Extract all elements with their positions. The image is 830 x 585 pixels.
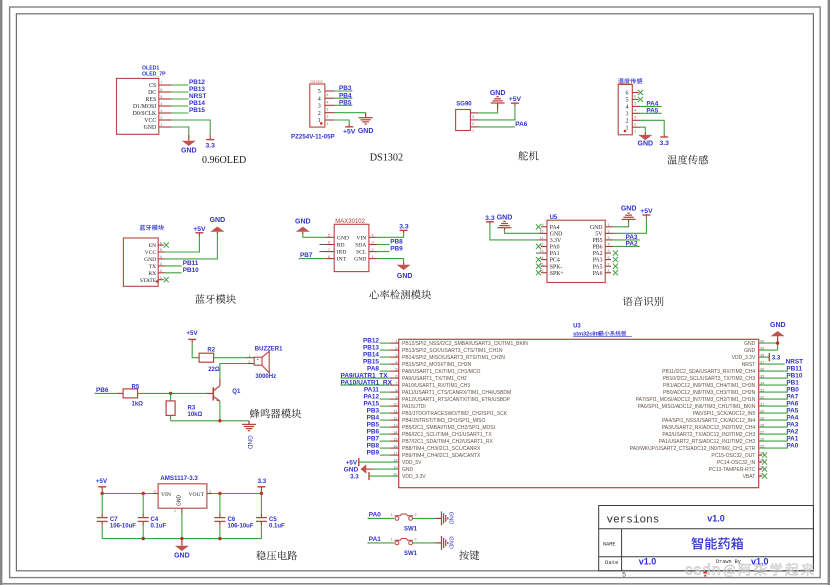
no-connect right pin 7 — [605, 265, 611, 267]
svg-text:2: 2 — [415, 538, 417, 542]
svg-text:GND: GND — [210, 217, 226, 224]
wire — [214, 357, 246, 359]
svg-text:C5: C5 — [269, 517, 277, 523]
ground GND (OLED) — [188, 135, 190, 141]
wire — [759, 342, 778, 344]
svg-text:DS1302: DS1302 — [311, 80, 323, 84]
no-connect PC4 — [541, 259, 547, 261]
caption 稳压电路 — [256, 551, 297, 561]
U3 pin names — [402, 341, 756, 480]
svg-text:PB6: PB6 — [96, 387, 109, 394]
svg-text:2: 2 — [326, 115, 328, 119]
svg-text:2: 2 — [472, 122, 474, 126]
svg-text:PB5: PB5 — [339, 99, 352, 106]
svg-text:PA6: PA6 — [515, 121, 527, 128]
DS1302 outside pin numbers — [326, 93, 328, 126]
svg-text:D1/MOSI: D1/MOSI — [133, 104, 156, 110]
svg-text:GND: GND — [181, 148, 197, 155]
svg-text:PA15/JTDI: PA15/JTDI — [402, 404, 426, 410]
wire — [380, 398, 390, 400]
svg-text:PB14/SPI2_MISO/USART3_RTS/TIM1: PB14/SPI2_MISO/USART3_RTS/TIM1_CH2N — [402, 355, 505, 361]
U3 pin numbers — [393, 340, 764, 477]
svg-text:PB8/TIM4_CH3/I2C1_SCL/CANRX: PB8/TIM4_CH3/I2C1_SCL/CANRX — [402, 446, 481, 452]
wire — [369, 258, 377, 260]
wire — [759, 363, 785, 365]
wire — [759, 384, 788, 386]
wire — [605, 245, 613, 247]
svg-text:GND: GND — [448, 536, 454, 548]
no-connect right pin 6 — [605, 259, 611, 261]
svg-text:GND: GND — [638, 141, 654, 148]
svg-text:SDA: SDA — [355, 243, 366, 249]
junction — [218, 492, 221, 495]
power +5V (bluetooth) — [198, 233, 200, 236]
svg-text:PB3: PB3 — [339, 85, 352, 92]
svg-text:3: 3 — [154, 489, 156, 493]
wire — [380, 447, 390, 449]
stub RD (unconnected) — [326, 244, 334, 246]
power 3.3 (MAX) — [403, 230, 405, 233]
no-connect — [759, 454, 762, 456]
svg-text:PB15: PB15 — [189, 107, 205, 114]
svg-text:1: 1 — [391, 513, 393, 517]
caption 蜂鸣器模块 — [250, 409, 301, 419]
wire — [759, 419, 788, 421]
svg-text:5: 5 — [318, 89, 321, 95]
wire — [539, 232, 547, 234]
svg-text:PA2: PA2 — [593, 251, 603, 257]
svg-text:PB13: PB13 — [363, 344, 379, 351]
svg-text:*: * — [257, 357, 259, 362]
wire — [380, 440, 390, 442]
wire — [632, 112, 640, 114]
svg-text:PB10/I2C2_SCL/USART3_TX/TIM2_C: PB10/I2C2_SCL/USART3_TX/TIM2_CH3 — [663, 376, 756, 382]
svg-text:+5V: +5V — [193, 226, 206, 233]
svg-text:GND: GND — [590, 225, 603, 231]
junction — [218, 537, 221, 540]
wire — [380, 363, 390, 365]
wire — [759, 370, 788, 372]
svg-text:PB4/JNTRST/TIM3_CH1/SPI1_MISO: PB4/JNTRST/TIM3_CH1/SPI1_MISO — [402, 418, 485, 424]
svg-text:5V: 5V — [595, 231, 603, 237]
svg-text:C4: C4 — [151, 517, 159, 523]
ground label GND rotated — [246, 435, 253, 449]
svg-text:+5V: +5V — [640, 208, 653, 215]
svg-text:4: 4 — [626, 105, 629, 111]
wire — [326, 236, 334, 238]
power 3.3 (temp) — [663, 134, 665, 137]
svg-text:10kΩ: 10kΩ — [188, 412, 203, 418]
svg-text:GND: GND — [402, 467, 414, 473]
svg-text:3.3: 3.3 — [485, 215, 495, 222]
junction — [776, 341, 779, 344]
svg-text:PA1: PA1 — [369, 536, 381, 543]
wire — [341, 377, 390, 379]
svg-text:PB5/I2C1_SMBAI/TIM3_CH2/SPI1_M: PB5/I2C1_SMBAI/TIM3_CH2/SPI1_MOSI — [402, 425, 495, 431]
caption 语音识别 — [623, 296, 664, 306]
svg-text:VDD_3.3V: VDD_3.3V — [732, 355, 756, 361]
no-connect — [759, 475, 762, 477]
svg-text:5: 5 — [626, 98, 629, 104]
title block table — [599, 506, 814, 571]
designator 蓝牙模块 (small) — [140, 225, 164, 231]
caption 按键 — [459, 550, 479, 560]
U5 pin names — [550, 225, 604, 277]
svg-text:PA0/WKUP/USART2_CTS/ADC12_IN0/: PA0/WKUP/USART2_CTS/ADC12_IN0/TIM2_CH1_E… — [630, 446, 756, 452]
wire — [159, 105, 172, 107]
svg-text:3.3: 3.3 — [772, 354, 781, 361]
module bluetooth box — [123, 238, 158, 286]
svg-text:SG90: SG90 — [456, 101, 472, 107]
ground GND (servo) — [497, 103, 499, 109]
U5 pin numbers — [539, 223, 609, 273]
svg-text:PA3: PA3 — [786, 421, 798, 428]
wire — [158, 251, 164, 253]
wire — [159, 98, 172, 100]
svg-text:PA5: PA5 — [593, 264, 603, 270]
wire — [759, 398, 788, 400]
svg-text:PA8/USART1_CK/TIM1_CH1/MCO: PA8/USART1_CK/TIM1_CH1/MCO — [402, 369, 481, 375]
svg-text:3.3: 3.3 — [350, 474, 359, 481]
svg-text:PB15/SPI2_MOSI/TIM1_CH3N: PB15/SPI2_MOSI/TIM1_CH3N — [402, 362, 472, 368]
no-connect — [759, 461, 762, 463]
svg-text:PA10/USART1_RX/TIM1_CH3: PA10/USART1_RX/TIM1_CH3 — [402, 383, 470, 389]
svg-text:GND: GND — [497, 214, 513, 221]
svg-text:PB9: PB9 — [367, 449, 380, 456]
wire — [759, 426, 788, 428]
svg-text:AMS1117-3.3: AMS1117-3.3 — [160, 475, 198, 482]
svg-text:PA15: PA15 — [363, 400, 379, 407]
svg-text:PA12: PA12 — [363, 393, 379, 400]
svg-text:PB0/ADC12_IN8/TIM3_CH3/TIM1_CH: PB0/ADC12_IN8/TIM3_CH3/TIM1_CH2N — [663, 390, 756, 396]
title name 智能药箱 — [692, 537, 744, 549]
wire — [170, 416, 172, 421]
power 3.3 (U5) — [489, 222, 491, 225]
svg-text:Date: Date — [605, 559, 618, 566]
svg-text:GND: GND — [246, 435, 253, 449]
svg-text:SW1: SW1 — [404, 527, 418, 533]
svg-text:VBAT: VBAT — [743, 474, 756, 480]
svg-text:PA11/USART1_CTS/CANRX/TIM1_CH4: PA11/USART1_CTS/CANRX/TIM1_CH4/USBDM — [402, 390, 511, 396]
svg-text:2: 2 — [318, 111, 321, 117]
ground GND (DS1302) — [365, 113, 367, 118]
IC U5 voice module box — [547, 220, 605, 282]
svg-text:PB13/SPI2_SCK/USART3_CTS/TIM1_: PB13/SPI2_SCK/USART3_CTS/TIM1_CH1N — [402, 348, 503, 354]
ground GND (temp) — [644, 132, 646, 135]
ground GND (MAX left) — [302, 232, 304, 234]
svg-text:PA1: PA1 — [550, 251, 560, 257]
svg-text:PA2: PA2 — [786, 428, 798, 435]
wire — [605, 239, 613, 241]
svg-text:PB8: PB8 — [390, 239, 403, 246]
stub PA1 (unconnected) — [541, 252, 547, 254]
svg-text:SPK-: SPK- — [550, 264, 563, 270]
wire top rail right — [207, 493, 213, 495]
svg-text:PA7: PA7 — [786, 393, 798, 400]
svg-text:VIN: VIN — [356, 235, 366, 241]
wire — [632, 105, 640, 107]
wire — [632, 119, 640, 121]
wire — [325, 112, 334, 114]
svg-text:GND: GND — [550, 231, 563, 237]
svg-text:1: 1 — [472, 129, 474, 133]
svg-text:GND: GND — [144, 125, 157, 131]
ground GND (U5 left) — [504, 228, 506, 231]
svg-text:CS: CS — [149, 83, 156, 89]
svg-text:GND: GND — [337, 235, 349, 241]
no-connect PA4 — [541, 226, 547, 228]
svg-text:3: 3 — [634, 116, 636, 120]
svg-text:3: 3 — [626, 112, 629, 118]
OLED1 pin names — [133, 83, 157, 131]
svg-text:GND: GND — [397, 273, 413, 280]
svg-text:v1.0: v1.0 — [707, 514, 725, 524]
svg-text:1: 1 — [326, 122, 328, 126]
wire — [605, 232, 613, 234]
svg-text:PA2: PA2 — [626, 240, 638, 247]
svg-text:VCC: VCC — [145, 250, 157, 256]
svg-text:PA4/SPI1_NSS/USART2_CK/ADC12_I: PA4/SPI1_NSS/USART2_CK/ADC12_IN4 — [662, 418, 755, 424]
svg-text:PB7: PB7 — [367, 435, 380, 442]
svg-text:GND: GND — [295, 218, 311, 225]
wire regulator GND pin — [181, 508, 183, 513]
svg-text:PC13-TAMPER-RTC: PC13-TAMPER-RTC — [709, 467, 756, 473]
svg-text:PB12/SPI2_NSS/I2C2_SMBAI/USART: PB12/SPI2_NSS/I2C2_SMBAI/USART3_CK/TIM1_… — [402, 341, 528, 347]
junction — [142, 492, 145, 495]
wire — [341, 384, 390, 386]
svg-text:GND: GND — [621, 205, 637, 212]
svg-text:PC4: PC4 — [550, 258, 560, 264]
svg-text:6: 6 — [626, 91, 629, 97]
svg-text:IRD: IRD — [337, 250, 347, 256]
svg-text:3.3: 3.3 — [659, 140, 669, 147]
svg-text:1: 1 — [391, 538, 393, 542]
resistor R2 — [199, 353, 214, 362]
wire — [369, 251, 377, 253]
svg-text:VCC: VCC — [144, 118, 156, 124]
SG90 pin numbers — [472, 115, 474, 133]
junction — [142, 537, 145, 540]
svg-text:PB10: PB10 — [183, 267, 199, 274]
svg-text:PA6: PA6 — [593, 271, 603, 277]
connector DS1302 header — [310, 84, 325, 127]
svg-text:DS1302: DS1302 — [370, 152, 403, 163]
wire — [325, 97, 334, 99]
capacitor C6 — [219, 494, 221, 514]
svg-text:PA6: PA6 — [786, 400, 798, 407]
svg-text:6: 6 — [634, 95, 636, 99]
svg-text:PB15: PB15 — [363, 358, 379, 365]
resistor R5 — [123, 389, 138, 398]
svg-text:GND: GND — [770, 322, 786, 329]
svg-text:PB9: PB9 — [390, 246, 403, 253]
svg-text:PB0: PB0 — [786, 386, 799, 393]
no-connect EN — [158, 244, 164, 246]
wire — [159, 112, 172, 114]
caption 温度传感 — [667, 155, 708, 165]
resistor R3 — [166, 401, 175, 416]
svg-text:5: 5 — [326, 93, 328, 97]
svg-text:DC: DC — [148, 90, 156, 96]
ground GND (U3 top right) — [777, 336, 779, 343]
wire — [325, 119, 334, 121]
no-connect SPK+ — [541, 272, 547, 274]
svg-text:3.3V: 3.3V — [550, 238, 562, 244]
svg-text:2: 2 — [634, 123, 636, 127]
svg-text:2: 2 — [209, 489, 211, 493]
temp sensor inside pin numbers — [626, 91, 629, 132]
DS1302 inside pin numbers — [318, 89, 321, 124]
ground GND (U5 right) — [628, 219, 630, 221]
svg-text:GND: GND — [744, 348, 756, 354]
svg-text:+5V: +5V — [186, 330, 198, 337]
svg-text:PB8: PB8 — [367, 442, 380, 449]
svg-text:PB6: PB6 — [593, 245, 603, 251]
junction — [218, 419, 221, 422]
svg-text:3: 3 — [326, 108, 328, 112]
MCU U3 box — [399, 339, 759, 487]
svg-text:VIN: VIN — [161, 492, 171, 498]
wire — [539, 239, 547, 241]
svg-text:PB11/I2C2_SDA/USART3_RX/TIM2_C: PB11/I2C2_SDA/USART3_RX/TIM2_CH4 — [662, 369, 755, 375]
ground GND (MAX right) — [403, 263, 405, 265]
svg-text:+5V: +5V — [96, 478, 108, 485]
svg-text:PA3/USART2_RX/ADC12_IN3/TIM2_C: PA3/USART2_RX/ADC12_IN3/TIM2_CH4 — [662, 425, 756, 431]
svg-text:4: 4 — [326, 100, 328, 104]
capacitor C7 — [101, 494, 103, 514]
svg-text:MAX30102: MAX30102 — [335, 219, 365, 225]
ground GND (buzzer) — [248, 421, 250, 425]
svg-text:PB14: PB14 — [189, 100, 205, 107]
svg-text:VDD_3.3V: VDD_3.3V — [402, 474, 426, 480]
svg-text:PA2/USART2_TX/ADC12_IN2/TIM2_C: PA2/USART2_TX/ADC12_IN2/TIM2_CH3 — [662, 432, 755, 438]
svg-text:PC14-OSC32_IN: PC14-OSC32_IN — [717, 460, 756, 466]
svg-text:PA8: PA8 — [367, 365, 379, 372]
connector SG90 — [456, 110, 471, 131]
svg-text:106-10uF: 106-10uF — [228, 524, 254, 530]
transistor Q1 — [212, 387, 214, 400]
wire — [369, 244, 377, 246]
svg-text:5: 5 — [634, 102, 636, 106]
no-connect pin 6 — [632, 92, 638, 94]
bluetooth pin names — [140, 243, 157, 284]
caption 舵机 — [518, 151, 538, 161]
svg-text:NAME: NAME — [603, 541, 615, 547]
wire — [248, 363, 254, 365]
ground GND (regulator) — [181, 539, 183, 546]
svg-text:PA5: PA5 — [646, 107, 658, 114]
svg-text:PB1/ADC12_IN9/TIM3_CH4/TIM1_CH: PB1/ADC12_IN9/TIM3_CH4/TIM1_CH3N — [663, 383, 756, 389]
no-connect pin 5 — [632, 98, 638, 100]
wire — [159, 126, 172, 128]
svg-text:RD: RD — [337, 243, 345, 249]
wire — [159, 119, 172, 121]
wire — [158, 265, 164, 267]
pin-1 marker dot — [624, 130, 627, 133]
wire — [380, 349, 390, 351]
wire — [380, 391, 390, 393]
svg-text:SCL: SCL — [356, 250, 367, 256]
svg-text:106-10uF: 106-10uF — [110, 524, 136, 530]
wire — [191, 339, 193, 343]
no-connect — [759, 468, 762, 470]
capacitor C5 — [260, 494, 262, 514]
wire — [759, 412, 788, 414]
ground GND (bluetooth, arrow up) — [216, 232, 218, 234]
svg-text:NRST: NRST — [742, 362, 756, 368]
wire — [470, 119, 478, 121]
svg-text:VOUT: VOUT — [188, 492, 204, 498]
caption 心率检测模块 — [369, 290, 431, 300]
svg-text:0.1uF: 0.1uF — [269, 524, 285, 530]
wire — [138, 392, 206, 394]
svg-text:C6: C6 — [228, 517, 236, 523]
svg-text:22Ω: 22Ω — [208, 367, 220, 373]
svg-text:PB12: PB12 — [363, 337, 379, 344]
svg-text:U3: U3 — [573, 324, 581, 330]
svg-text:3: 3 — [472, 115, 474, 119]
wire — [759, 433, 788, 435]
wire top rail left — [102, 493, 152, 495]
svg-text:RX: RX — [148, 271, 156, 277]
svg-text:+5V: +5V — [346, 460, 358, 467]
svg-text:+5V: +5V — [509, 96, 522, 103]
svg-text:GND: GND — [176, 495, 182, 507]
svg-text:PA3: PA3 — [593, 258, 603, 264]
svg-text:OLED1: OLED1 — [142, 65, 159, 71]
svg-text:PB5: PB5 — [593, 238, 603, 244]
connector OLED1 (0.96 OLED display) — [117, 78, 159, 134]
svg-text:0.1uF: 0.1uF — [151, 524, 167, 530]
svg-text:PA4: PA4 — [550, 225, 560, 231]
svg-text:PA9/USART1_TX/TIM1_CH2: PA9/USART1_TX/TIM1_CH2 — [402, 376, 467, 382]
svg-text:PB4: PB4 — [367, 414, 380, 421]
wire — [159, 84, 172, 86]
capacitor C4 — [142, 494, 144, 514]
wire — [470, 112, 478, 114]
svg-text:PB12: PB12 — [189, 79, 205, 86]
regulator AMS1117-3.3 box — [158, 484, 207, 508]
svg-text:PA5/SPI1_SCK/ADC12_IN5: PA5/SPI1_SCK/ADC12_IN5 — [693, 411, 756, 417]
svg-text:PA0: PA0 — [786, 442, 798, 449]
svg-text:RES: RES — [146, 97, 157, 103]
svg-text:PB13: PB13 — [189, 86, 205, 93]
power +5V (U5) — [645, 215, 647, 218]
svg-text:PB6: PB6 — [367, 428, 380, 435]
svg-text:PA7/SPI1_MOSI/ADC12_IN7/TIM3_C: PA7/SPI1_MOSI/ADC12_IN7/TIM3_CH2/TIM1_CH… — [636, 397, 756, 403]
svg-text:EN: EN — [149, 243, 156, 249]
wire — [380, 419, 390, 421]
svg-text:C7: C7 — [110, 517, 118, 523]
svg-text:PB7/I2C1_SDA/TIM4_CH2/USART1_R: PB7/I2C1_SDA/TIM4_CH2/USART1_RX — [402, 439, 493, 445]
svg-text:OLED_7P: OLED_7P — [142, 72, 166, 78]
svg-text:VDD_5V: VDD_5V — [402, 460, 422, 466]
svg-text:1kΩ: 1kΩ — [132, 402, 144, 408]
wire — [326, 258, 334, 260]
svg-text:PA0: PA0 — [369, 512, 381, 519]
svg-text:PB11: PB11 — [786, 365, 802, 372]
svg-text:R5: R5 — [132, 384, 140, 390]
svg-text:PZ254V-11-05P: PZ254V-11-05P — [291, 133, 335, 140]
wire — [158, 272, 164, 274]
svg-text:GND: GND — [174, 553, 190, 560]
wire — [325, 104, 334, 106]
svg-text:PB9/TIM4_CH4/I2C1_SDA/CANTX: PB9/TIM4_CH4/I2C1_SDA/CANTX — [402, 453, 481, 459]
svg-text:versions: versions — [607, 514, 660, 526]
power 3.3 (U3 pin38) — [768, 353, 770, 361]
svg-text:Q1: Q1 — [232, 389, 241, 395]
svg-text:v1.0: v1.0 — [639, 557, 657, 567]
